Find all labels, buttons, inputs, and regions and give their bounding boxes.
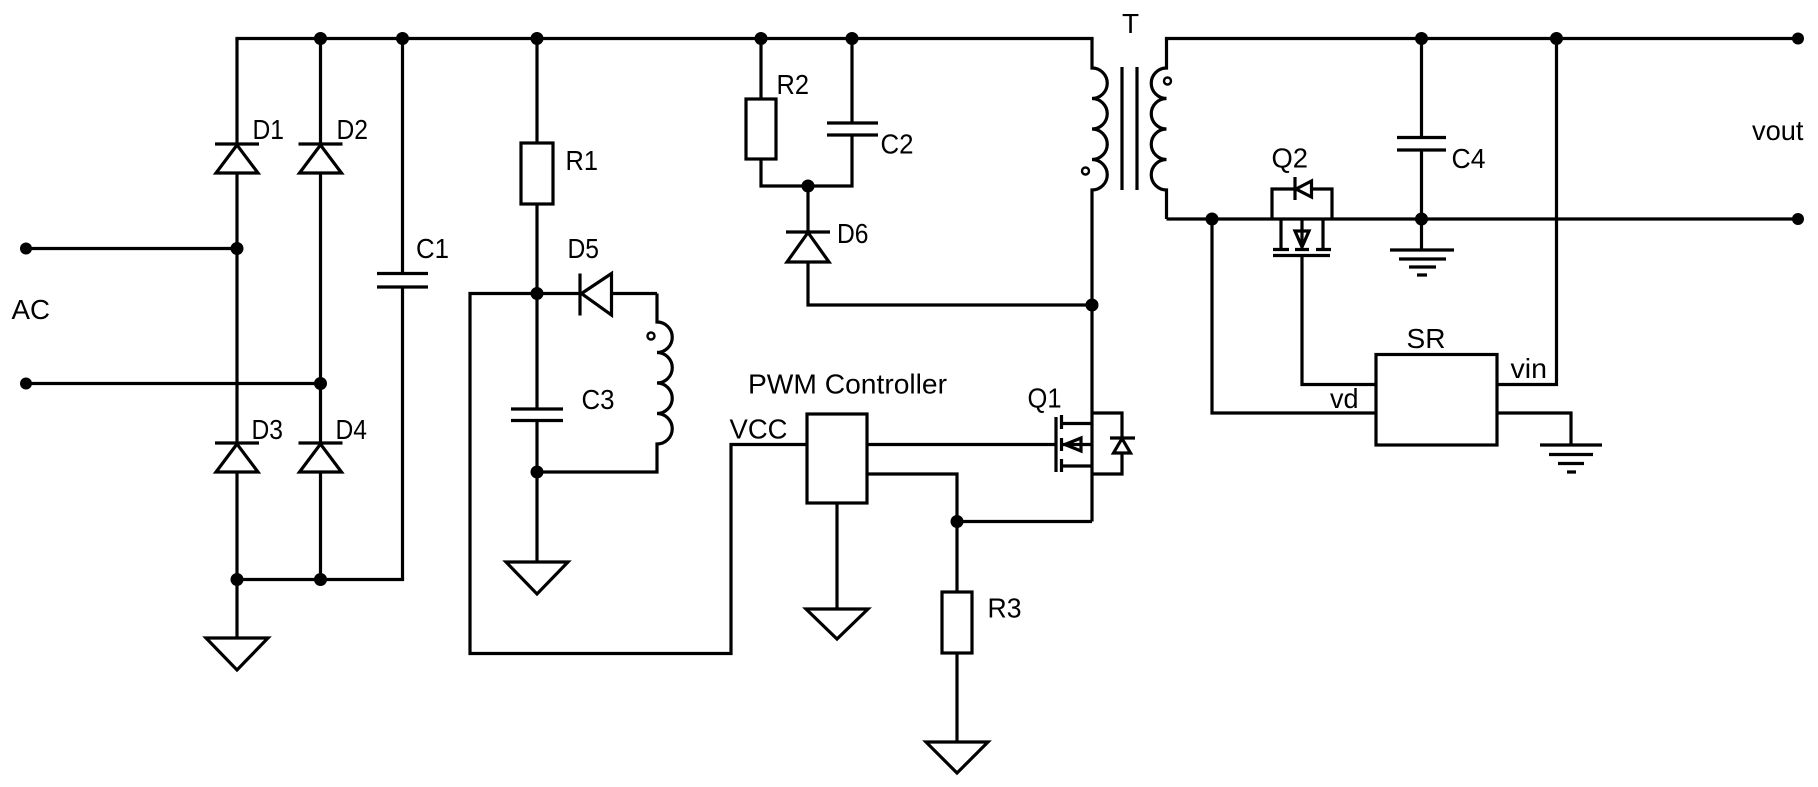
resistor R3 <box>942 522 972 743</box>
diode D2 <box>299 144 343 173</box>
wire source return <box>957 520 1092 523</box>
wire R2 branch <box>761 39 808 187</box>
transformer core <box>1122 67 1137 190</box>
gate bar <box>1054 417 1057 472</box>
junction dot R2 top <box>755 32 768 45</box>
svg-text:T: T <box>1122 8 1139 39</box>
svg-text:PWM Controller: PWM Controller <box>748 369 947 400</box>
wire C1 branch <box>401 39 404 580</box>
channel segments <box>1060 415 1063 472</box>
terminal vout+ <box>1792 33 1804 45</box>
junction dot AC1/D1 node <box>231 242 244 255</box>
junction dot C2 top <box>846 32 859 45</box>
junction dot AC2/D2 node <box>314 377 327 390</box>
body arrow <box>1300 219 1303 247</box>
phase dot (aux) <box>648 333 655 340</box>
junction dot R1 top <box>531 32 544 45</box>
body stub with arrow <box>1062 443 1093 446</box>
wire bottom bus <box>237 578 404 581</box>
svg-text:vout: vout <box>1752 115 1804 146</box>
junction dot C4 top <box>1415 32 1428 45</box>
junction dot snubber node <box>802 180 815 193</box>
svg-text:VCC: VCC <box>730 414 788 445</box>
svg-text:C3: C3 <box>582 384 615 415</box>
wire PWM output 2 <box>867 474 957 522</box>
wire R1 branch <box>535 39 538 294</box>
capacitor C3 <box>511 294 563 473</box>
wire D1-D3 branch <box>235 39 238 580</box>
phase dot (primary) <box>1082 168 1089 175</box>
wire D2-D4 branch <box>319 39 322 580</box>
capacitor C2 <box>827 123 878 135</box>
wire gate drive <box>867 443 1056 446</box>
junction dot vin top <box>1550 32 1563 45</box>
wire secondary top rail <box>1165 37 1798 40</box>
MOSFET Q2 <box>1273 219 1376 385</box>
svg-text:R2: R2 <box>777 69 810 100</box>
body diode Q1 <box>1092 413 1135 474</box>
capacitor C4 <box>1397 39 1446 220</box>
phase dot (secondary) <box>1164 78 1171 85</box>
resistor R1 <box>521 143 553 204</box>
svg-text:SR: SR <box>1407 323 1446 354</box>
drain stub <box>1062 422 1093 425</box>
capacitor C1 <box>377 274 428 288</box>
svg-text:D4: D4 <box>336 414 368 445</box>
junction dot D2 top <box>314 32 327 45</box>
source/drain stubs <box>1281 219 1323 248</box>
junction dot R1/D5/C3 node <box>531 287 544 300</box>
wire top rail <box>235 37 1093 40</box>
aux winding L1 <box>537 294 672 473</box>
svg-text:C4: C4 <box>1452 143 1486 174</box>
wire C2 branch <box>808 39 852 187</box>
svg-text:vd: vd <box>1330 383 1359 414</box>
junction dot C1 top <box>396 32 409 45</box>
gate lead <box>1302 256 1376 385</box>
svg-text:Q1: Q1 <box>1028 383 1062 414</box>
source stub <box>1062 464 1093 467</box>
wire secondary bottom rail <box>1167 217 1799 220</box>
wire vd sense <box>1212 219 1376 413</box>
junction dot vd node <box>1206 213 1219 226</box>
SR controller box <box>1376 355 1497 446</box>
svg-text:Q2: Q2 <box>1272 143 1309 174</box>
gate bar <box>1273 254 1330 257</box>
resistor R2 <box>746 99 776 159</box>
wire AC line 1 <box>26 247 237 250</box>
svg-text:AC: AC <box>12 294 51 325</box>
junction dot C3 bottom <box>531 466 544 479</box>
diode D4 <box>299 443 343 472</box>
svg-text:vin: vin <box>1511 353 1548 384</box>
terminal AC2 <box>20 378 32 390</box>
junction dot C4 bottom <box>1415 213 1428 226</box>
PWM controller U1 <box>807 414 867 503</box>
wire AC line 2 <box>26 382 321 385</box>
transformer T primary winding <box>1092 39 1107 522</box>
ground (C3) <box>506 472 568 594</box>
wire SR ground <box>1497 413 1571 445</box>
svg-text:D3: D3 <box>252 414 284 445</box>
junction dot bus mid <box>314 573 327 586</box>
svg-text:D2: D2 <box>337 114 369 145</box>
ground (C4, earth) <box>1390 219 1454 275</box>
diode D3 <box>215 443 259 472</box>
svg-text:C2: C2 <box>881 129 914 160</box>
diode D1 <box>215 144 259 173</box>
svg-text:R3: R3 <box>988 593 1022 624</box>
diode D5 <box>537 274 657 316</box>
terminal AC1 <box>20 243 32 255</box>
svg-text:D6: D6 <box>837 218 869 249</box>
contact bars <box>1273 248 1331 251</box>
svg-text:D5: D5 <box>568 233 600 264</box>
junction dot R3 node <box>951 515 964 528</box>
body diode Q2 <box>1272 177 1332 219</box>
diode D6 <box>786 186 1092 305</box>
ground (PWM) <box>806 503 868 639</box>
transformer T secondary winding <box>1151 39 1166 220</box>
svg-text:D1: D1 <box>253 114 285 145</box>
junction dot bus left <box>231 573 244 586</box>
ground (bridge) <box>206 580 268 671</box>
svg-text:R1: R1 <box>566 145 599 176</box>
svg-text:C1: C1 <box>416 233 449 264</box>
wire vin <box>1497 39 1557 385</box>
MOSFET Q1 <box>1056 415 1092 472</box>
wire VCC loop <box>470 294 807 654</box>
ground (SR, earth) <box>1540 445 1602 472</box>
junction dot drain node <box>1086 299 1099 312</box>
ground (R3) <box>926 742 988 773</box>
terminal vout- <box>1792 213 1804 225</box>
